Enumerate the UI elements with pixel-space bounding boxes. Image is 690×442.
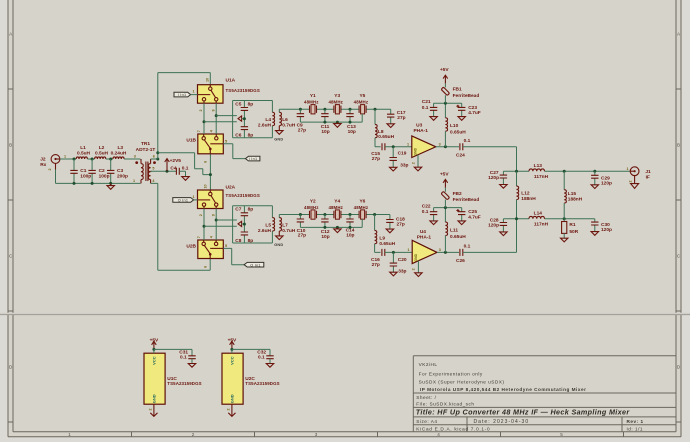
- svg-text:48MHz: 48MHz: [328, 100, 343, 105]
- svg-text:0.5uH: 0.5uH: [77, 150, 91, 156]
- wire ground bus chain 1: [300, 114, 362, 122]
- capacitor C2: [91, 159, 93, 183]
- svg-text:VCC: VCC: [230, 356, 235, 365]
- capacitor C7: [243, 206, 245, 224]
- svg-text:L3: L3: [117, 145, 123, 151]
- svg-text:GND: GND: [414, 147, 418, 155]
- svg-text:Y1: Y1: [310, 93, 316, 99]
- svg-text:27p: 27p: [298, 127, 306, 133]
- ferrite bead FB1: [444, 83, 446, 103]
- svg-text:120p: 120p: [488, 175, 499, 181]
- svg-text:L15: L15: [568, 191, 577, 197]
- svg-text:5: 5: [152, 167, 154, 171]
- svg-text:U3: U3: [416, 123, 422, 129]
- svg-text:120p: 120p: [601, 227, 612, 233]
- svg-text:PHA-1: PHA-1: [413, 128, 428, 134]
- ground: [336, 122, 338, 124]
- svg-text:C5: C5: [235, 101, 241, 107]
- title block frame: [413, 356, 676, 432]
- svg-text:6: 6: [204, 161, 208, 163]
- capacitor C13: [349, 109, 351, 122]
- svg-text:2: 2: [629, 180, 633, 182]
- wire feed from U3: [516, 147, 518, 171]
- svg-text:L6: L6: [282, 117, 288, 123]
- svg-text:2: 2: [411, 162, 415, 164]
- capacitor C25 (polarized): [461, 208, 463, 221]
- capacitor C24: [460, 143, 463, 150]
- svg-text:FB1: FB1: [453, 87, 462, 93]
- svg-text:48MHz: 48MHz: [354, 205, 369, 210]
- svg-text:0.1: 0.1: [464, 243, 471, 249]
- svg-text:0.65uH: 0.65uH: [379, 241, 395, 247]
- power +5V: [152, 341, 157, 349]
- inductor L12: [516, 171, 518, 186]
- capacitor C29: [594, 171, 596, 185]
- inductor L13: [529, 169, 545, 171]
- analog switch U2B: [198, 240, 224, 259]
- capacitor C14: [349, 215, 351, 228]
- svg-text:File: SuSDX.kicad_sch: File: SuSDX.kicad_sch: [416, 402, 474, 407]
- svg-text:U1B: U1B: [186, 137, 196, 143]
- inductor L3: [113, 157, 124, 159]
- wire to C31: [154, 349, 192, 355]
- svg-text:27p: 27p: [397, 115, 405, 121]
- svg-text:Y4: Y4: [334, 198, 340, 204]
- capacitor C18: [389, 215, 391, 230]
- wire bus U1A.10/TR1.6: [158, 73, 211, 159]
- svg-text:0.65uH: 0.65uH: [450, 234, 466, 240]
- svg-text:Q In1: Q In1: [178, 199, 189, 203]
- svg-text:2: 2: [48, 168, 52, 170]
- svg-text:+5V: +5V: [228, 337, 237, 343]
- svg-text:Size: A4: Size: A4: [416, 419, 437, 424]
- inductor L8: [374, 109, 376, 124]
- svg-text:FerriteBead: FerriteBead: [453, 197, 480, 203]
- wire output row 1: [503, 170, 630, 172]
- capacitor C6: [243, 119, 245, 138]
- global label I In1: [174, 92, 191, 97]
- svg-text:3: 3: [315, 432, 318, 437]
- svg-text:C19: C19: [398, 151, 407, 157]
- svg-text:TS5A23159DGS: TS5A23159DGS: [226, 88, 260, 93]
- connector J2: [51, 155, 60, 164]
- analog switch U1A: [198, 85, 224, 104]
- svg-text:Y5: Y5: [359, 93, 365, 99]
- capacitor C23 (polarized): [461, 103, 463, 116]
- svg-text:6: 6: [204, 266, 208, 268]
- wire C24 to output net: [463, 146, 517, 148]
- svg-text:ADT2-1T: ADT2-1T: [136, 147, 156, 153]
- capacitor C26: [460, 249, 463, 256]
- svg-text:+2V5: +2V5: [170, 158, 182, 164]
- crystal Y5: [359, 105, 366, 114]
- capacitor C19: [392, 147, 394, 168]
- power unit U1C: [144, 353, 165, 404]
- inductor L14: [529, 216, 545, 218]
- svg-text:27p: 27p: [372, 156, 380, 162]
- svg-text:10: 10: [205, 78, 209, 82]
- zone ticks: [8, 89, 681, 437]
- svg-text:48MHz: 48MHz: [354, 100, 369, 105]
- capacitor C12: [324, 215, 326, 228]
- inductor L15: [563, 171, 565, 190]
- U1C ground pin: [150, 404, 157, 416]
- svg-text:5: 5: [560, 432, 563, 437]
- wire U2B.5 to Q In1: [223, 248, 244, 264]
- svg-text:L9: L9: [379, 236, 385, 242]
- ground bus wire: [56, 182, 141, 184]
- inductor L2: [95, 157, 106, 159]
- svg-text:2: 2: [192, 432, 195, 437]
- svg-text:C1: C1: [80, 168, 86, 174]
- svg-text:L2: L2: [99, 145, 105, 151]
- svg-text:4.7uF: 4.7uF: [468, 215, 481, 221]
- svg-text:9: 9: [212, 214, 216, 216]
- svg-text:5: 5: [225, 244, 227, 248]
- inductor L9: [374, 215, 376, 231]
- wire L7 to filter: [279, 214, 300, 216]
- svg-text:B: B: [677, 142, 680, 147]
- svg-text:33p: 33p: [398, 268, 406, 274]
- svg-text:188nH: 188nH: [568, 197, 583, 203]
- capacitor C15: [382, 143, 385, 150]
- svg-text:R1: R1: [569, 222, 575, 228]
- wire to TR1 pin 3: [124, 158, 140, 160]
- svg-text:C25: C25: [468, 209, 477, 215]
- capacitor C21: [433, 103, 435, 116]
- svg-text:10p: 10p: [321, 129, 329, 135]
- svg-text:8p: 8p: [248, 133, 254, 139]
- svg-text:1: 1: [193, 90, 195, 94]
- svg-text:+5V: +5V: [440, 67, 449, 73]
- svg-text:Title: HF Up Converter 48 MHz: Title: HF Up Converter 48 MHz IF — Heck …: [416, 408, 631, 417]
- op-amp U3 PHA-1: [412, 136, 436, 158]
- capacitor C1: [73, 159, 75, 183]
- wire feed from U4: [516, 219, 518, 253]
- svg-text:1: 1: [627, 167, 629, 171]
- svg-text:2: 2: [199, 109, 203, 111]
- svg-text:48MHz: 48MHz: [304, 100, 319, 105]
- wire J2 pin1 to filter: [60, 158, 76, 160]
- svg-text:FerriteBead: FerriteBead: [453, 93, 480, 99]
- svg-text:0.1: 0.1: [422, 209, 429, 215]
- wire crystal chain 2: [300, 214, 390, 216]
- inductor L11: [444, 208, 446, 223]
- svg-text:GND: GND: [230, 394, 235, 403]
- svg-text:10p: 10p: [348, 129, 356, 135]
- U4 ground pin: [417, 261, 419, 273]
- svg-text:U1A: U1A: [226, 77, 236, 83]
- svg-text:7: 7: [197, 236, 201, 238]
- analog switch U1B: [198, 134, 224, 154]
- capacitor C4: [176, 168, 179, 175]
- net tie NT2: [238, 221, 242, 226]
- svg-text:C6: C6: [235, 133, 241, 139]
- J1 ground: [634, 176, 636, 184]
- wire TR1 pin6 to bus: [151, 158, 158, 160]
- power +5V: [230, 341, 235, 349]
- svg-text:4.7uF: 4.7uF: [468, 110, 481, 116]
- resistor R1: [563, 219, 565, 222]
- wire TR1.4 bus to U2B.6: [151, 183, 211, 270]
- svg-text:2.6uH: 2.6uH: [258, 228, 272, 234]
- svg-text:PHA-1: PHA-1: [417, 234, 432, 240]
- wire to VCC pin: [231, 349, 233, 353]
- svg-text:1: 1: [68, 432, 71, 437]
- svg-text:117nH: 117nH: [534, 174, 549, 180]
- svg-text:120p: 120p: [488, 222, 499, 228]
- svg-text:0.1: 0.1: [464, 138, 471, 144]
- svg-text:KiCad E.D.A. kicad 7.0.1-0: KiCad E.D.A. kicad 7.0.1-0: [416, 426, 490, 431]
- svg-text:L12: L12: [521, 191, 530, 197]
- capacitor C10: [299, 215, 301, 228]
- wires U2A to U2B: [204, 209, 216, 241]
- svg-text:100p: 100p: [99, 173, 110, 179]
- svg-text:C20: C20: [398, 257, 407, 263]
- svg-text:U2A: U2A: [226, 185, 236, 191]
- svg-text:VCC: VCC: [152, 356, 157, 365]
- wire output row 2: [503, 218, 594, 220]
- U3 ground pin: [417, 155, 419, 167]
- svg-text:120p: 120p: [601, 181, 612, 187]
- svg-text:0.7uH: 0.7uH: [282, 228, 296, 234]
- svg-text:0.24uH: 0.24uH: [111, 150, 127, 156]
- crystal Y6: [359, 210, 366, 219]
- svg-text:2: 2: [149, 408, 153, 410]
- wire loop C5/C6/L4: [233, 101, 273, 138]
- svg-text:33p: 33p: [400, 162, 408, 168]
- svg-text:TS5A23159DGS: TS5A23159DGS: [245, 381, 279, 386]
- capacitor C17: [390, 109, 392, 124]
- capacitor C16: [382, 249, 385, 256]
- svg-text:Date: 2023-04-30: Date: 2023-04-30: [474, 419, 530, 425]
- svg-text:C21: C21: [422, 99, 431, 105]
- ground: [336, 227, 338, 229]
- svg-text:TS5A23159DGS: TS5A23159DGS: [167, 381, 201, 386]
- svg-text:L1: L1: [80, 145, 86, 151]
- svg-text:IF: IF: [646, 174, 650, 180]
- ground: [182, 177, 189, 181]
- capacitor C27: [502, 171, 504, 184]
- power +5V: [443, 75, 448, 83]
- svg-text:U4: U4: [420, 229, 426, 235]
- svg-text:1: 1: [133, 179, 135, 183]
- svg-text:3: 3: [439, 248, 441, 252]
- wire U4 output: [437, 251, 459, 253]
- svg-text:200p: 200p: [117, 173, 128, 179]
- inductor L5: [272, 218, 274, 231]
- wire J2 pin2 down to ground bus: [55, 163, 57, 169]
- svg-text:C2: C2: [99, 168, 105, 174]
- svg-text:1: 1: [407, 248, 409, 252]
- global label Q In1: [244, 262, 264, 267]
- svg-text:I In1: I In1: [249, 157, 258, 161]
- wire +5V node: [434, 102, 462, 104]
- svg-text:L14: L14: [534, 210, 543, 216]
- capacitor C11: [324, 109, 326, 122]
- svg-text:GND: GND: [152, 394, 157, 403]
- svg-text:0.7uH: 0.7uH: [282, 123, 296, 129]
- wire stubs to net tie: [204, 220, 237, 226]
- svg-text:48MHz: 48MHz: [304, 205, 319, 210]
- wire to U3: [385, 146, 412, 148]
- capacitor C31: [188, 356, 195, 359]
- svg-text:10p: 10p: [346, 233, 354, 239]
- wires U1A to U1B: [204, 103, 216, 134]
- svg-text:117nH: 117nH: [534, 222, 549, 228]
- ferrite bead FB2: [444, 188, 446, 208]
- inductor L7: [278, 215, 280, 218]
- svg-text:Rx: Rx: [40, 162, 46, 168]
- horizontal separator line: [0, 312, 690, 314]
- power +2V5: [165, 159, 170, 172]
- svg-text:+5V: +5V: [440, 172, 449, 178]
- svg-text:U2B: U2B: [186, 243, 196, 249]
- svg-text:Q In1: Q In1: [250, 263, 261, 267]
- svg-text:GND: GND: [274, 138, 283, 142]
- svg-text:6: 6: [153, 155, 155, 159]
- svg-text:L10: L10: [450, 123, 459, 129]
- svg-text:L11: L11: [450, 228, 458, 234]
- crystal Y2: [310, 210, 317, 219]
- svg-text:27p: 27p: [372, 262, 380, 268]
- svg-text:10p: 10p: [321, 234, 329, 240]
- svg-text:Y6: Y6: [359, 198, 365, 204]
- svg-text:7: 7: [197, 130, 201, 132]
- capacitor C32: [266, 356, 273, 359]
- svg-text:GND: GND: [274, 243, 283, 247]
- svg-text:1: 1: [193, 195, 195, 199]
- svg-text:I In1: I In1: [178, 93, 187, 97]
- svg-text:48MHz: 48MHz: [328, 205, 343, 210]
- wire to C32: [232, 349, 270, 355]
- capacitor C5: [243, 101, 245, 119]
- svg-text:IP Motorola USP 8,420,544 B2: IP Motorola USP 8,420,544 B2 Heterodyne …: [420, 387, 586, 392]
- power unit U2C: [222, 353, 243, 404]
- wire +5V node: [434, 207, 462, 209]
- capacitor C20: [392, 252, 394, 272]
- svg-text:FB2: FB2: [453, 191, 462, 197]
- svg-text:8p: 8p: [248, 101, 254, 107]
- svg-text:L4: L4: [265, 117, 271, 123]
- svg-text:27p: 27p: [397, 222, 405, 228]
- wire to VCC pin: [153, 349, 155, 353]
- op-amp U4 PHA-1: [412, 240, 437, 263]
- inductor L6: [278, 109, 280, 112]
- svg-text:8p: 8p: [248, 238, 254, 244]
- capacitor C22: [433, 208, 435, 221]
- wire: [106, 158, 113, 160]
- svg-text:2: 2: [412, 268, 416, 270]
- wire U1B.5 to I In1: [223, 144, 245, 159]
- crystal Y4: [334, 210, 341, 219]
- svg-text:Y3: Y3: [334, 93, 340, 99]
- svg-text:TR1: TR1: [141, 141, 150, 147]
- U2C ground pin: [228, 404, 235, 416]
- svg-text:0.1: 0.1: [180, 355, 187, 361]
- svg-text:50R: 50R: [569, 229, 578, 235]
- svg-text:L7: L7: [282, 222, 288, 228]
- svg-text:10: 10: [204, 184, 208, 188]
- wire U1B.6 to U2A.10: [209, 154, 211, 190]
- svg-text:L13: L13: [534, 163, 543, 169]
- crystal Y1: [310, 105, 317, 114]
- svg-text:SuSDX (Super Heterodyne uSDX): SuSDX (Super Heterodyne uSDX): [419, 380, 505, 385]
- svg-text:J2: J2: [40, 157, 46, 163]
- svg-text:Y2: Y2: [310, 198, 316, 204]
- inductor L1: [76, 157, 87, 159]
- analog switch U2A: [198, 190, 224, 209]
- connector J1: [630, 167, 639, 176]
- svg-text:Id: 1/1: Id: 1/1: [627, 426, 644, 431]
- svg-text:1: 1: [64, 155, 66, 159]
- wire stubs to net tie: [204, 116, 237, 122]
- net tie NT1: [238, 116, 242, 121]
- power +5V: [443, 179, 448, 187]
- svg-text:3: 3: [134, 155, 136, 159]
- svg-text:188nH: 188nH: [521, 196, 536, 202]
- capacitor C28: [502, 219, 504, 232]
- inductor L4: [272, 112, 274, 125]
- capacitor C9: [299, 109, 301, 122]
- svg-text:0.5uH: 0.5uH: [95, 150, 109, 156]
- svg-text:8p: 8p: [248, 207, 254, 213]
- capacitor C30: [594, 219, 596, 232]
- svg-text:Rev: 1: Rev: 1: [627, 419, 644, 424]
- crystal Y3: [334, 105, 341, 114]
- svg-text:4: 4: [437, 432, 440, 437]
- svg-text:0.65uH: 0.65uH: [378, 134, 394, 140]
- wire TR1 pin5 to C4 node: [151, 170, 177, 172]
- wire L6 to filter: [279, 108, 300, 110]
- svg-text:1: 1: [407, 142, 409, 146]
- svg-text:J1: J1: [645, 169, 651, 175]
- wire ground bus chain 2: [300, 219, 362, 227]
- svg-text:C3: C3: [117, 168, 123, 174]
- wire to U4: [385, 251, 412, 253]
- wire crystal chain 1: [300, 108, 390, 110]
- wire: [87, 158, 94, 160]
- capacitor C8: [243, 224, 245, 243]
- svg-text:GND: GND: [414, 253, 418, 261]
- svg-text:9: 9: [212, 109, 216, 111]
- svg-text:0.1: 0.1: [258, 355, 265, 361]
- svg-text:TS5A23159DGS: TS5A23159DGS: [226, 193, 260, 198]
- svg-text:3: 3: [439, 143, 441, 147]
- ground: [110, 183, 112, 185]
- svg-text:2.6uH: 2.6uH: [258, 123, 272, 129]
- svg-text:27p: 27p: [298, 233, 306, 239]
- wire U3 output: [436, 146, 459, 148]
- svg-text:C7: C7: [235, 207, 241, 213]
- capacitor C3: [110, 159, 112, 183]
- global label Q In1: [173, 198, 194, 203]
- wire staircase to switch commons: [158, 153, 211, 175]
- svg-text:+5V: +5V: [150, 337, 159, 343]
- node A (input): [73, 158, 76, 161]
- svg-text:2: 2: [199, 214, 203, 216]
- svg-text:For Experimentation only: For Experimentation only: [419, 371, 483, 376]
- svg-text:C26: C26: [456, 258, 465, 264]
- svg-text:100p: 100p: [80, 173, 91, 179]
- svg-text:0.1: 0.1: [422, 105, 429, 111]
- inductor L10: [444, 103, 446, 118]
- svg-text:C22: C22: [422, 204, 431, 210]
- global label I In1: [245, 156, 260, 161]
- svg-text:0.1: 0.1: [182, 166, 189, 172]
- svg-text:C24: C24: [456, 152, 465, 158]
- svg-text:C8: C8: [235, 238, 241, 244]
